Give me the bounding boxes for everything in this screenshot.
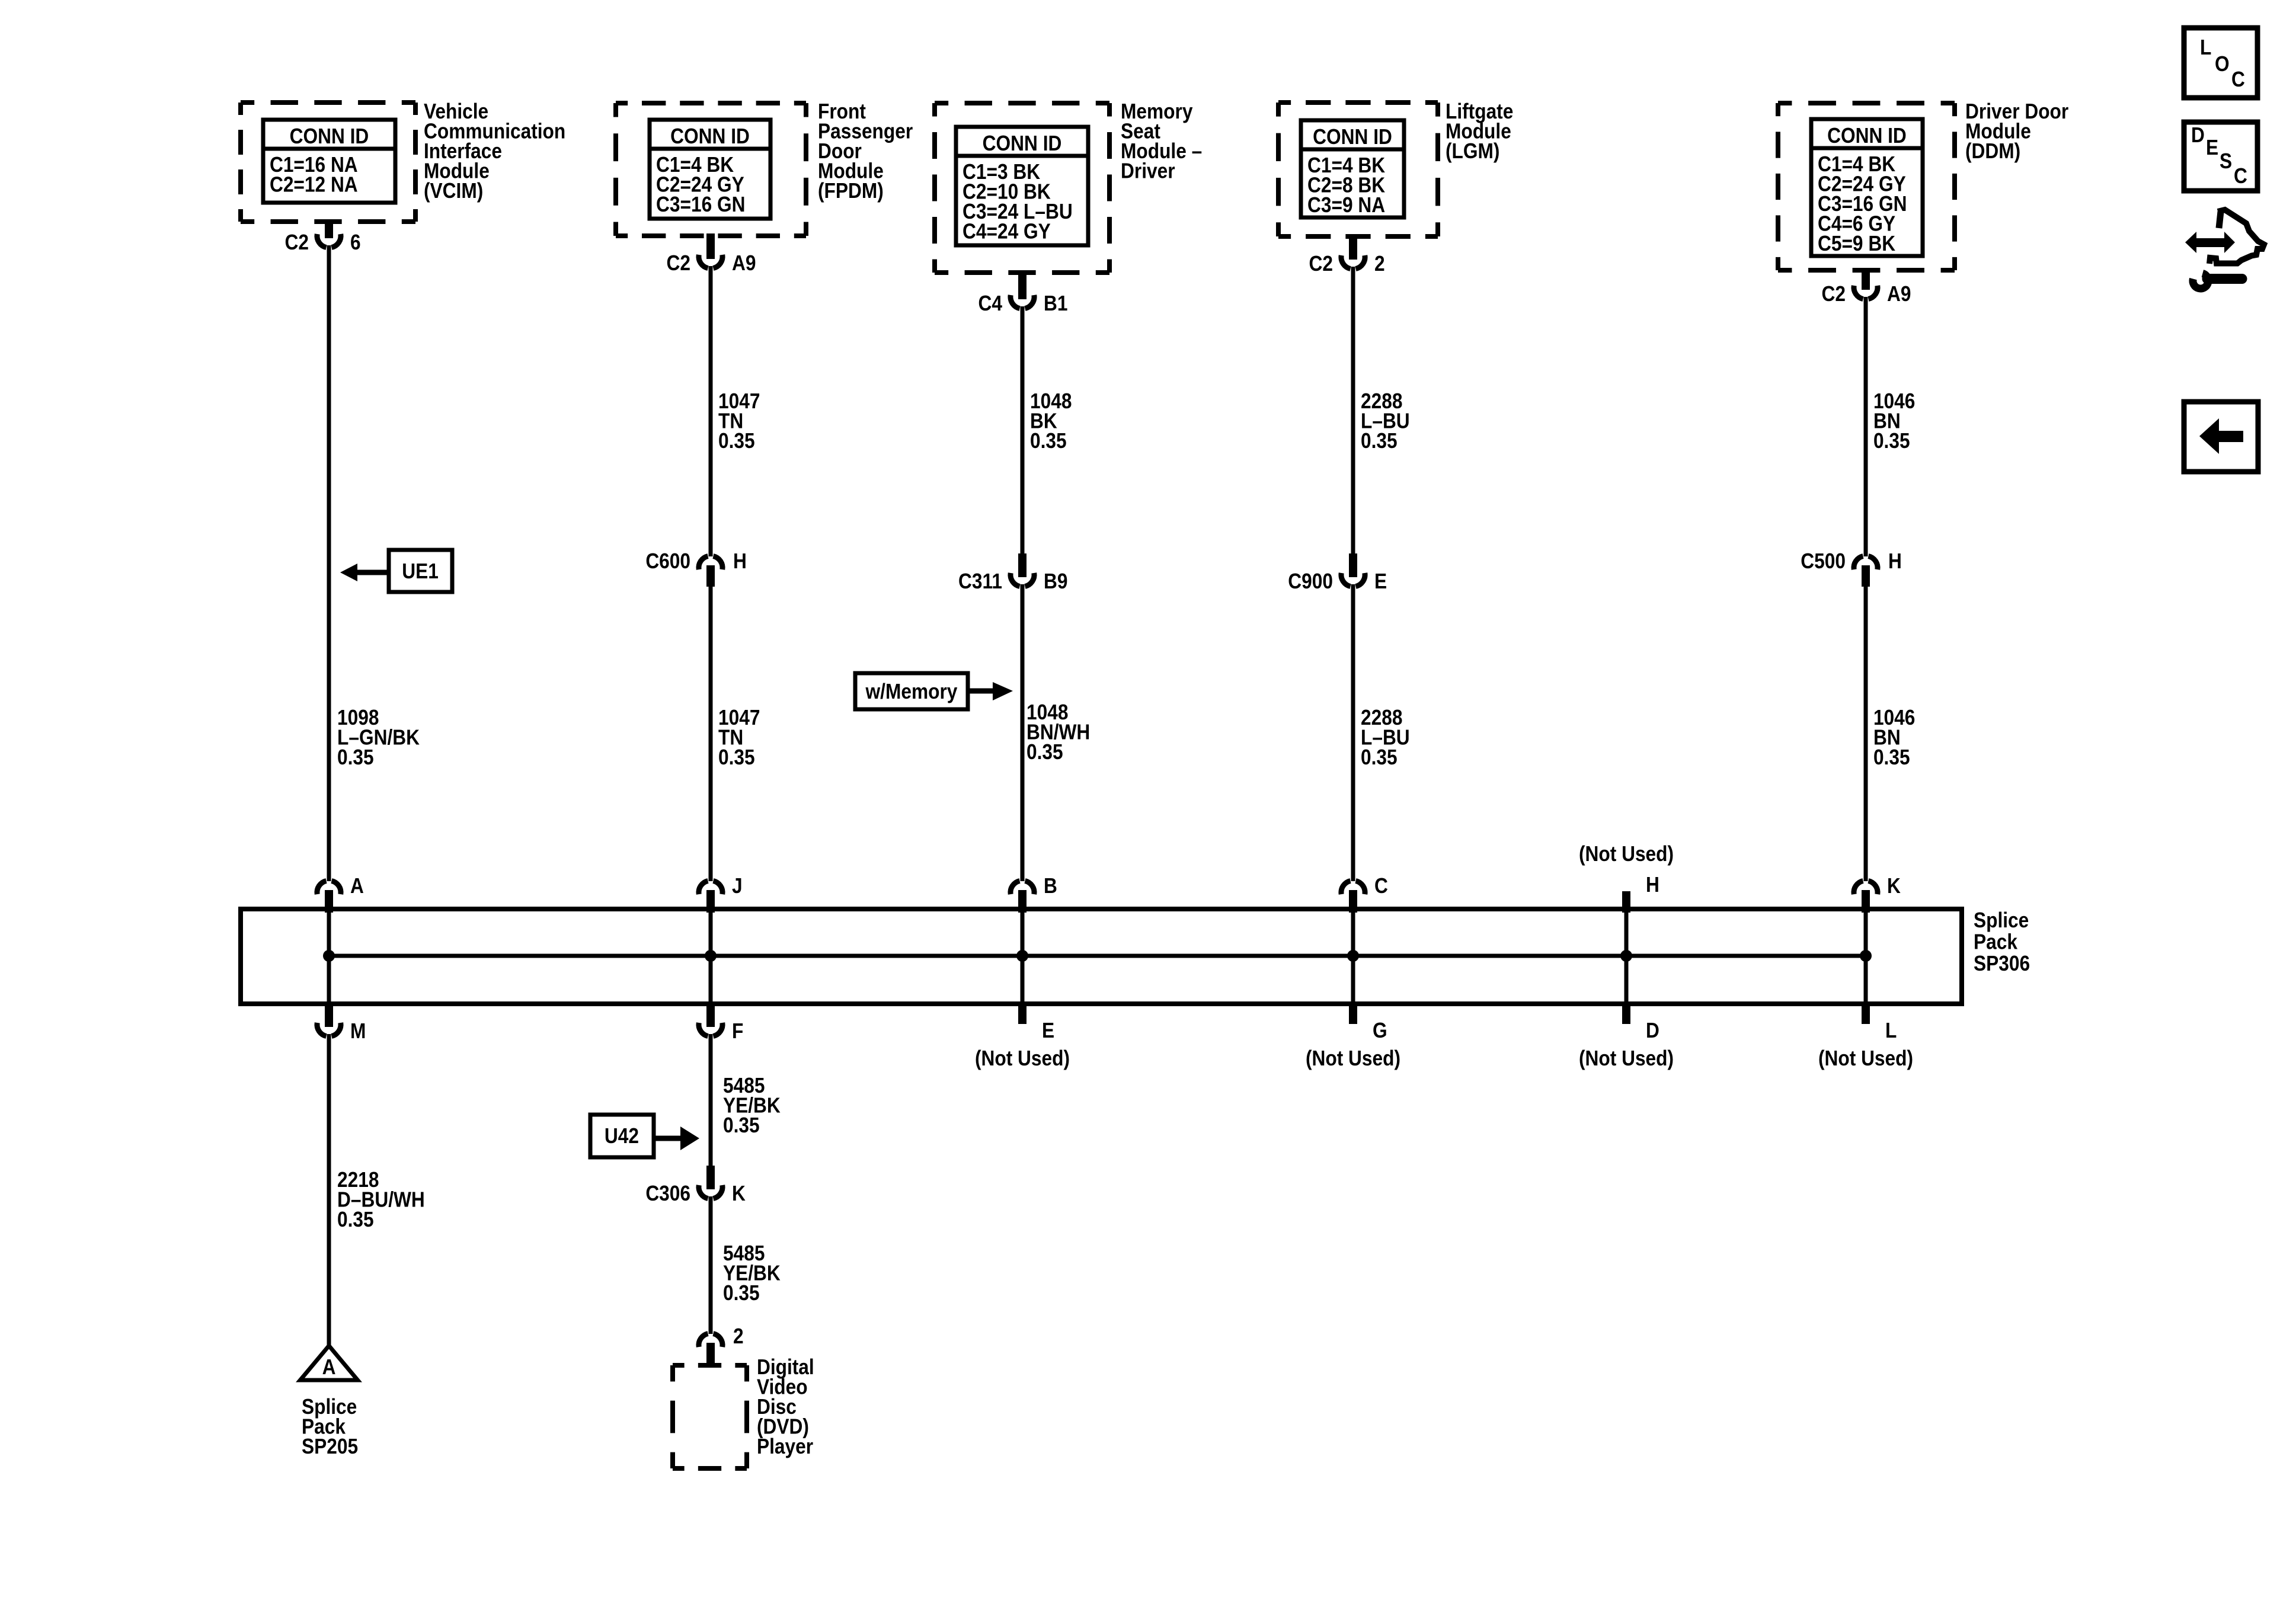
- svg-text:C2: C2: [1309, 252, 1333, 276]
- svg-text:0.35: 0.35: [1873, 745, 1910, 769]
- module VCIM dashed outline: [241, 100, 415, 105]
- svg-text:(DDM): (DDM): [1965, 139, 2020, 163]
- svg-text:CONN ID: CONN ID: [290, 124, 369, 148]
- splice pack SP306 internal bus: [329, 954, 1866, 958]
- splice terminal H (top, not used): [1622, 891, 1630, 913]
- junction dot B: [1016, 950, 1028, 962]
- svg-text:U42: U42: [605, 1124, 639, 1148]
- splice pack SP306 box: [241, 909, 1962, 1004]
- LGM CONN ID table: [1301, 120, 1404, 217]
- svg-text:C4=24 GY: C4=24 GY: [962, 220, 1051, 244]
- svg-text:w/Memory: w/Memory: [865, 680, 958, 703]
- junction dot A: [323, 950, 335, 962]
- svg-text:J: J: [732, 874, 743, 898]
- svg-text:C: C: [1374, 874, 1388, 898]
- svg-text:F: F: [732, 1019, 743, 1043]
- splice terminal B (top): [1011, 881, 1034, 895]
- svg-text:C3=9 NA: C3=9 NA: [1307, 193, 1385, 217]
- svg-text:0.35: 0.35: [723, 1113, 760, 1137]
- splice terminal J (top): [699, 881, 722, 895]
- wire FPDM to C600: [709, 266, 713, 556]
- svg-text:L: L: [2200, 36, 2211, 59]
- junction dot H: [1620, 950, 1632, 962]
- callout UE1 box with arrow: [389, 550, 452, 592]
- splice terminal C (top): [1341, 881, 1365, 895]
- junction dot C: [1347, 950, 1359, 962]
- splice terminal D (bottom, not used): [1622, 1001, 1630, 1024]
- svg-text:0.35: 0.35: [337, 1208, 374, 1231]
- splice terminal E (bottom, not used): [1018, 1001, 1027, 1024]
- svg-text:B: B: [1044, 874, 1057, 898]
- VCIM CONN ID table: [263, 120, 395, 203]
- svg-text:C2: C2: [284, 231, 308, 254]
- svg-text:H: H: [1888, 549, 1902, 573]
- connector C311 pin B9: [1018, 553, 1027, 577]
- FPDM CONN ID table: [650, 120, 770, 219]
- connector C600 pin H: [699, 556, 722, 570]
- wire splice F to C306 (CKT 5485): [709, 1034, 713, 1167]
- svg-text:A: A: [322, 1355, 336, 1379]
- splice terminal F (bottom): [706, 1001, 715, 1027]
- svg-text:B1: B1: [1044, 292, 1067, 315]
- wire LGM to C900: [1351, 267, 1355, 553]
- svg-text:Splice: Splice: [1974, 908, 2029, 932]
- icon back arrow box: [2184, 402, 2258, 472]
- svg-text:E: E: [1042, 1019, 1054, 1042]
- connector C500 pin H: [1854, 556, 1878, 570]
- icon DESC box: [2184, 122, 2257, 191]
- svg-text:M: M: [350, 1019, 366, 1043]
- svg-text:0.35: 0.35: [1361, 429, 1398, 453]
- svg-text:C5=9 BK: C5=9 BK: [1818, 232, 1896, 255]
- svg-text:E: E: [2206, 136, 2218, 159]
- svg-text:(Not Used): (Not Used): [1306, 1046, 1400, 1070]
- svg-text:A9: A9: [1887, 282, 1911, 306]
- svg-text:SP306: SP306: [1974, 952, 2030, 975]
- svg-text:(Not Used): (Not Used): [1579, 842, 1674, 866]
- svg-text:C500: C500: [1801, 549, 1846, 573]
- wire C306 to DVD player (CKT 5485): [709, 1196, 713, 1334]
- splice pack SP205 triangle symbol: [300, 1346, 358, 1380]
- splice internal wire H: [1625, 911, 1629, 1001]
- icon LOC box: [2184, 28, 2257, 98]
- connector C306 pin K: [706, 1166, 715, 1189]
- DVD player dashed box: [673, 1363, 747, 1368]
- svg-text:UE1: UE1: [402, 559, 439, 583]
- svg-text:C2: C2: [1821, 282, 1845, 306]
- connector FPDM C2 pin A9: [706, 233, 715, 259]
- wire VCIM to splice A (CKT 1098): [327, 245, 331, 881]
- svg-text:0.35: 0.35: [718, 745, 755, 769]
- svg-text:L: L: [1885, 1019, 1897, 1042]
- svg-text:B9: B9: [1044, 569, 1067, 593]
- connector MSM C4 pin B1: [1018, 270, 1027, 299]
- wire splice M to SP205 (CKT 2218): [327, 1034, 331, 1348]
- svg-text:CONN ID: CONN ID: [1313, 125, 1392, 149]
- svg-text:0.35: 0.35: [1873, 429, 1910, 453]
- module MSM dashed outline: [935, 101, 1109, 105]
- callout U42 box with arrow: [590, 1115, 654, 1157]
- svg-text:H: H: [733, 549, 747, 573]
- connector LGM C2 pin 2: [1349, 234, 1357, 260]
- MSM CONN ID table: [956, 127, 1088, 245]
- svg-text:SP205: SP205: [302, 1435, 358, 1458]
- svg-text:0.35: 0.35: [1361, 745, 1398, 769]
- callout w/Memory box with arrow: [855, 673, 968, 709]
- svg-text:O: O: [2215, 52, 2230, 76]
- svg-text:K: K: [1887, 874, 1901, 898]
- svg-text:D: D: [1646, 1019, 1659, 1042]
- wire C500 to splice K: [1864, 585, 1868, 881]
- splice terminal K (top): [1854, 881, 1878, 895]
- splice internal wire C: [1351, 911, 1355, 1001]
- module LGM dashed outline: [1278, 100, 1438, 105]
- svg-text:C3=16 GN: C3=16 GN: [656, 193, 745, 216]
- junction dot K: [1860, 950, 1872, 962]
- svg-text:G: G: [1373, 1019, 1387, 1042]
- module DDM dashed outline: [1778, 101, 1955, 105]
- DDM CONN ID table: [1811, 119, 1923, 256]
- splice internal wire A: [327, 911, 331, 1001]
- connector DVD pin 2: [699, 1334, 722, 1348]
- svg-text:Player: Player: [757, 1435, 813, 1458]
- svg-text:C2=12 NA: C2=12 NA: [270, 173, 358, 197]
- svg-text:Pack: Pack: [1974, 930, 2017, 954]
- svg-text:A: A: [350, 874, 364, 898]
- svg-text:(Not Used): (Not Used): [1818, 1046, 1913, 1070]
- junction dot J: [705, 950, 717, 962]
- svg-text:(VCIM): (VCIM): [424, 179, 483, 203]
- svg-text:E: E: [1374, 569, 1387, 593]
- svg-text:(Not Used): (Not Used): [975, 1046, 1070, 1070]
- module FPDM dashed outline: [616, 101, 806, 105]
- svg-text:C2: C2: [667, 251, 690, 275]
- svg-text:CONN ID: CONN ID: [670, 124, 750, 148]
- svg-text:CONN ID: CONN ID: [983, 132, 1062, 155]
- svg-text:H: H: [1646, 873, 1659, 897]
- svg-text:0.35: 0.35: [337, 745, 374, 769]
- svg-text:A9: A9: [732, 251, 756, 275]
- svg-text:0.35: 0.35: [1027, 740, 1063, 764]
- connector VCIM C2 pin 6: [325, 219, 333, 238]
- splice terminal M (bottom): [325, 1001, 333, 1027]
- splice terminal L (bottom, not used): [1862, 1001, 1870, 1024]
- svg-text:0.35: 0.35: [1030, 429, 1067, 453]
- svg-text:2: 2: [1374, 252, 1385, 276]
- connector C900 pin E: [1349, 553, 1357, 577]
- svg-text:2: 2: [733, 1324, 744, 1348]
- splice internal wire B: [1021, 911, 1025, 1001]
- splice terminal G (bottom, not used): [1349, 1001, 1357, 1024]
- splice internal wire K: [1864, 911, 1868, 1001]
- svg-text:K: K: [732, 1182, 746, 1205]
- splice internal wire J: [709, 911, 713, 1001]
- svg-text:Driver: Driver: [1121, 159, 1175, 183]
- svg-text:C311: C311: [958, 569, 1002, 593]
- wire C600 to splice J: [709, 585, 713, 881]
- svg-text:C900: C900: [1288, 569, 1333, 593]
- wire MSM to C311: [1021, 306, 1025, 553]
- svg-text:CONN ID: CONN ID: [1827, 124, 1907, 148]
- wire C900 to splice C: [1351, 584, 1355, 881]
- icon wrench with arrows (repair symbol): [2185, 232, 2235, 253]
- svg-text:(Not Used): (Not Used): [1579, 1046, 1674, 1070]
- svg-text:0.35: 0.35: [723, 1281, 760, 1305]
- svg-text:6: 6: [350, 231, 361, 254]
- svg-text:0.35: 0.35: [718, 429, 755, 453]
- svg-text:(FPDM): (FPDM): [818, 179, 884, 203]
- svg-text:C306: C306: [645, 1182, 690, 1205]
- connector DDM C2 pin A9: [1862, 268, 1870, 290]
- svg-text:(LGM): (LGM): [1446, 139, 1499, 163]
- svg-text:C4: C4: [978, 292, 1003, 315]
- wire DDM to C500: [1864, 297, 1868, 556]
- svg-text:D: D: [2191, 123, 2205, 147]
- wire C311 to splice B: [1021, 584, 1025, 881]
- svg-text:S: S: [2220, 149, 2232, 173]
- svg-text:C: C: [2231, 68, 2245, 91]
- svg-text:C: C: [2234, 164, 2247, 188]
- svg-text:C600: C600: [645, 549, 690, 573]
- splice terminal A (top): [317, 881, 341, 895]
